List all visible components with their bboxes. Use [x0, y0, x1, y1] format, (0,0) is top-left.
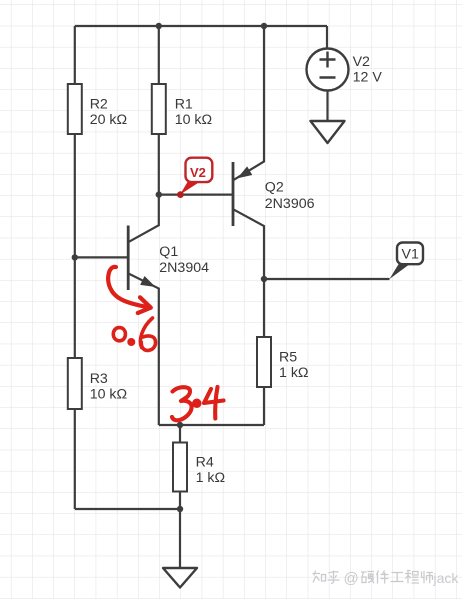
junction bottom rail R4 — [177, 422, 183, 428]
svg-text:20 kΩ: 20 kΩ — [90, 112, 127, 128]
junction top Q2 emitter — [261, 23, 267, 29]
wire left rail middle — [74, 134, 76, 358]
resistor R4 — [173, 443, 225, 492]
wire left rail lower — [74, 409, 76, 509]
wire left bottom horizontal — [75, 508, 180, 510]
wire bottom rail — [159, 424, 264, 426]
svg-text:R5: R5 — [279, 349, 297, 365]
junction Q1 base — [72, 254, 78, 260]
svg-text:R2: R2 — [90, 96, 108, 112]
junction node V2 net — [156, 191, 162, 197]
net label V1 — [390, 243, 424, 280]
wire node V2 to Q2 base — [159, 194, 233, 196]
svg-text:@: @ — [344, 570, 359, 587]
junction V1 node — [261, 276, 267, 282]
annotation 0.6 — [113, 318, 155, 350]
svg-text:R3: R3 — [90, 371, 108, 387]
wire V2 source drop — [326, 26, 328, 50]
svg-text:V1: V1 — [402, 246, 419, 262]
svg-text:V2: V2 — [353, 54, 370, 70]
svg-text:1 kΩ: 1 kΩ — [196, 470, 226, 486]
wire top rail — [75, 25, 327, 27]
svg-text:1 kΩ: 1 kΩ — [279, 365, 309, 381]
ground bottom — [163, 568, 197, 588]
watermark zhihu — [313, 571, 434, 584]
voltage source V2 — [307, 49, 383, 91]
wire R1 bottom to node V2 — [158, 134, 160, 195]
svg-text:12 V: 12 V — [353, 69, 383, 85]
svg-text:R1: R1 — [175, 96, 193, 112]
svg-text:V2: V2 — [190, 165, 206, 180]
resistor R1 — [152, 84, 212, 134]
svg-text:Q2: Q2 — [265, 180, 284, 196]
svg-text:10 kΩ: 10 kΩ — [175, 112, 212, 128]
wire R4 bottom to ground — [179, 492, 181, 569]
wire V2 source to ground — [326, 90, 328, 121]
resistor R5 — [257, 337, 309, 425]
junction R4 bottom — [177, 506, 183, 512]
annotation red arrow — [108, 267, 151, 313]
wire V1 net — [264, 278, 390, 280]
ground under V2 — [311, 121, 345, 143]
svg-text:2N3904: 2N3904 — [159, 260, 209, 276]
resistor R2 — [68, 84, 127, 134]
svg-text:R4: R4 — [196, 454, 214, 470]
junction top R1 — [156, 23, 162, 29]
transistor Q1 — [128, 195, 209, 425]
wire left rail upper — [74, 26, 76, 84]
resistor R3 — [68, 358, 127, 409]
svg-text:Q1: Q1 — [159, 244, 178, 260]
transistor Q2 — [233, 26, 315, 337]
svg-text:jack: jack — [433, 570, 460, 586]
svg-text:10 kΩ: 10 kΩ — [90, 387, 127, 403]
net label V2 (red flag) — [177, 158, 212, 198]
annotation 3.4 — [172, 387, 224, 420]
wire R4 top stub — [179, 425, 181, 443]
wire R1 top — [158, 26, 160, 84]
wire Q1 base — [75, 256, 128, 258]
svg-text:2N3906: 2N3906 — [265, 196, 315, 212]
